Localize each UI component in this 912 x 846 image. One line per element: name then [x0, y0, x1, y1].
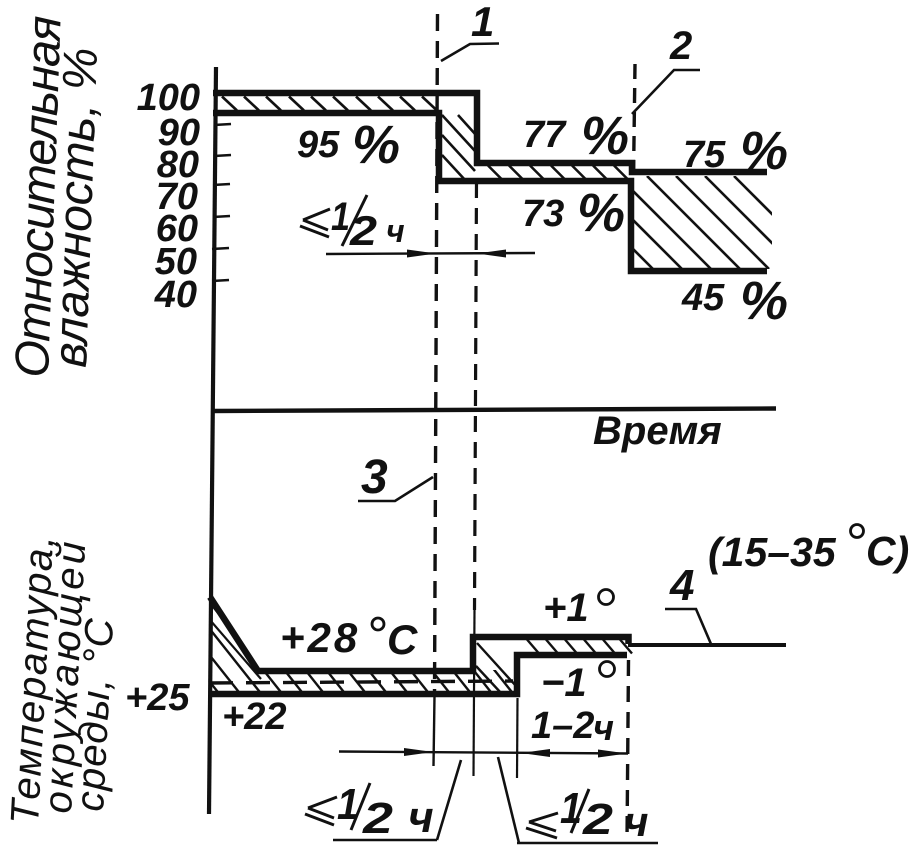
label +1 deg	[543, 586, 614, 630]
svg-text:С: С	[387, 616, 418, 663]
label 77%	[523, 106, 629, 166]
label (15-35 C)	[708, 525, 909, 576]
axis tick 70	[213, 184, 230, 185]
label +22	[222, 696, 286, 738]
svg-text:+22: +22	[222, 696, 286, 738]
axis tick 80	[214, 155, 231, 156]
svg-text:2: 2	[582, 795, 614, 844]
svg-text:%: %	[581, 106, 629, 166]
label 75%	[683, 121, 788, 181]
svg-text:95: 95	[297, 124, 340, 166]
hatch band 77-73	[488, 166, 628, 180]
dashed vertical line 1 (time mark 1/3)	[434, 14, 438, 766]
svg-text:2: 2	[349, 207, 377, 254]
svg-text:ч: ч	[624, 798, 649, 845]
dashed vertical line 2 lower part	[627, 660, 629, 842]
svg-text:+25: +25	[125, 677, 190, 719]
callout label 4	[665, 561, 711, 644]
hatch band +28/+22	[140, 594, 599, 696]
temperature final line (15-35C)	[628, 643, 786, 647]
y-axis label 50	[155, 241, 197, 283]
bottom caption line 3: sredy, C	[68, 616, 122, 812]
bottom caption line 1: Temperatura	[3, 535, 62, 826]
svg-text:ч: ч	[386, 213, 405, 249]
y-axis label 70	[156, 176, 198, 218]
svg-text:%: %	[740, 121, 788, 181]
extension line at x=517	[516, 698, 519, 778]
svg-text:45: 45	[681, 277, 725, 319]
bottom dimension line with arrows	[339, 748, 628, 758]
axis tick 40	[212, 280, 229, 281]
svg-text:%: %	[740, 271, 788, 331]
temperature upper limit curve	[210, 597, 629, 671]
svg-text:среды, °С: среды, °С	[68, 616, 122, 812]
humidity upper limit curve (100 -> 77 -> 75)	[213, 93, 767, 172]
y-axis label 40	[154, 274, 197, 316]
+25 dashed level line	[209, 681, 513, 683]
humidity lower limit curve (95 -> 73 -> 45)	[213, 113, 767, 271]
hatch region 75-45	[560, 176, 827, 269]
svg-text:77: 77	[523, 114, 567, 156]
thin diagonal inside band	[210, 620, 261, 679]
label 73%	[522, 183, 625, 243]
svg-text:1: 1	[560, 784, 582, 833]
y-axis label 100	[137, 77, 200, 119]
y-axis label 80	[157, 144, 199, 186]
label 95%	[297, 115, 400, 175]
svg-text:ч: ч	[593, 707, 614, 748]
vertical y-axis (shared)	[209, 67, 216, 814]
svg-text:1: 1	[471, 0, 494, 45]
axis label Vremya	[593, 409, 722, 453]
axis tick 60	[213, 216, 230, 217]
svg-text:Время: Время	[593, 409, 722, 453]
y-axis label 60	[156, 208, 198, 250]
svg-text:%: %	[577, 183, 625, 243]
svg-text:2: 2	[362, 794, 394, 843]
svg-text:ч: ч	[408, 793, 434, 842]
svg-text:(15–35: (15–35	[708, 529, 837, 575]
dimension text <=1/2 h (bottom left)	[305, 760, 461, 843]
label 45%	[681, 271, 788, 331]
label -1 deg	[541, 661, 615, 705]
svg-text:73: 73	[522, 193, 564, 235]
callout label 2	[632, 24, 700, 114]
dashed vertical line 2 upper part	[634, 64, 636, 178]
svg-text:2: 2	[669, 24, 692, 68]
svg-text:+28: +28	[280, 614, 360, 661]
axis tick 50	[212, 248, 229, 249]
dimension text <=1/2 h (bottom right)	[498, 757, 658, 845]
label 1-2 h	[531, 705, 614, 748]
hatch band +1/-1	[527, 640, 632, 654]
label +25	[125, 677, 190, 719]
y-axis caption line 2: vlazhnost, %	[44, 47, 108, 369]
hatch band 100-95	[222, 97, 437, 111]
svg-text:1–2: 1–2	[531, 705, 594, 747]
axis tick 90	[214, 124, 231, 125]
svg-text:40: 40	[154, 274, 197, 316]
svg-text:75: 75	[683, 134, 726, 176]
dashed vertical line (second time mark)	[474, 182, 477, 776]
svg-text:+1: +1	[543, 586, 589, 630]
temperature lower limit curve	[209, 655, 627, 694]
y-axis label 90	[158, 112, 200, 154]
y-axis caption line 1: Otnositelnaya	[6, 15, 72, 379]
svg-text:3: 3	[361, 451, 388, 504]
svg-text:влажность, %: влажность, %	[44, 47, 108, 369]
bottom caption line 2: okruzhayushchei	[36, 541, 94, 815]
svg-text:%: %	[352, 115, 400, 175]
svg-text:−1: −1	[541, 661, 587, 705]
hatch column step	[476, 643, 516, 693]
top dimension line with arrows (<=1/2 h)	[326, 250, 535, 258]
time axis (Vremya)	[211, 409, 776, 412]
hatch column between lines 1 and 2	[442, 115, 476, 181]
label +28 C	[280, 614, 418, 663]
callout label 3	[358, 451, 433, 504]
svg-text:С): С)	[866, 528, 909, 574]
svg-text:4: 4	[669, 561, 694, 610]
callout label 1	[441, 0, 499, 61]
dimension text <=1/2 h (top)	[300, 195, 405, 254]
